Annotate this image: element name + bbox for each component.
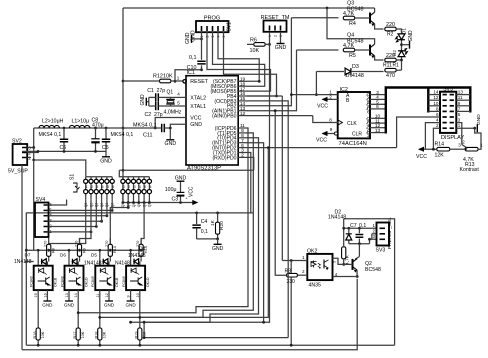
svg-text:GND: GND (408, 30, 414, 42)
svg-text:R20: R20 (219, 221, 225, 230)
svg-text:MKS4 0,1: MKS4 0,1 (39, 132, 62, 138)
svg-text:C1: C1 (147, 88, 154, 94)
wire R6 right (265, 43, 269, 45)
capacitor C3 electrolytic (180, 181, 182, 202)
svg-text:PREAMP_SEL: PREAMP_SEL (387, 217, 393, 249)
svg-text:4N35: 4N35 (309, 283, 322, 289)
svg-text:PC849: PC849 (30, 276, 34, 287)
bus IC2 to SV5 (386, 88, 471, 134)
svg-text:VCC: VCC (416, 154, 427, 160)
connector SV4 (35, 203, 49, 238)
ground R20 GND (217, 239, 219, 244)
svg-text:11: 11 (458, 95, 463, 100)
wire C4 bottom (197, 238, 218, 240)
svg-text:100μ: 100μ (165, 187, 177, 193)
svg-text:1K: 1K (210, 219, 216, 226)
wire outer loop (22, 279, 357, 350)
node C5 top (105, 127, 108, 130)
resistor R3 330 (287, 273, 298, 277)
svg-text:R11: R11 (383, 62, 392, 68)
node RESET_TM R6 (268, 43, 271, 46)
wire SV4 row1 (49, 231, 92, 233)
node C4 top (195, 212, 198, 215)
svg-text:12: 12 (105, 293, 109, 297)
wire filter bottom rail (22, 150, 106, 152)
svg-text:270: 270 (44, 241, 48, 247)
ground IC1 GND (166, 139, 174, 141)
connector RESET_TM (264, 21, 287, 32)
wire VCC stub (155, 118, 186, 129)
svg-text:DISPLAY: DISPLAY (441, 135, 464, 141)
svg-text:5: 5 (107, 185, 109, 189)
svg-text:27p: 27p (157, 88, 166, 94)
wire PB1 net to R5 (297, 49, 339, 51)
capacitor C10 (197, 61, 205, 64)
svg-text:74AC164N: 74AC164N (339, 141, 367, 147)
svg-text:R12: R12 (153, 74, 163, 80)
svg-text:1: 1 (177, 76, 180, 81)
transistor Q4 (369, 45, 371, 56)
svg-text:CLK: CLK (347, 121, 357, 127)
wire C2 left (149, 105, 156, 107)
wire SV5 pin6 down (397, 117, 440, 148)
svg-text:OK1B: OK1B (115, 277, 119, 287)
wire cell1 diode left (26, 261, 33, 263)
svg-text:4: 4 (102, 185, 104, 189)
wire C4 rail (26, 212, 254, 214)
svg-text:8: 8 (329, 118, 332, 123)
svg-text:9: 9 (458, 101, 461, 106)
svg-text:4,0MHz: 4,0MHz (164, 109, 182, 115)
svg-text:L1>10μ: L1>10μ (72, 119, 90, 125)
svg-text:GND: GND (42, 303, 53, 308)
wire SV4 pin6 (49, 200, 67, 206)
svg-text:7: 7 (458, 106, 461, 111)
wire OK2 pin1 (282, 260, 307, 262)
svg-text:15: 15 (34, 293, 38, 297)
wire SV5 pin1 gnd (456, 127, 474, 129)
svg-text:C6: C6 (60, 145, 67, 151)
wire RESET net to pin1 (175, 70, 202, 82)
svg-text:2: 2 (329, 94, 332, 99)
node R20 bottom (216, 238, 219, 241)
svg-text:GND: GND (100, 159, 112, 165)
svg-text:R10: R10 (113, 246, 117, 253)
svg-text:GND: GND (212, 246, 224, 252)
svg-text:QD: QD (366, 107, 371, 113)
svg-text:9: 9 (127, 295, 131, 297)
svg-text:9: 9 (330, 127, 333, 132)
wire rail A (343, 219, 345, 246)
resistor R6 (254, 43, 265, 47)
svg-text:SV3: SV3 (376, 248, 386, 254)
wire S1 col3 (95, 199, 97, 226)
wire SV5 pin3 to wiper (456, 123, 462, 145)
svg-text:R4: R4 (349, 21, 356, 27)
wire collector riser (359, 239, 376, 243)
wire R1 to D2 node (396, 59, 401, 61)
svg-text:VCC: VCC (189, 186, 195, 197)
svg-text:SV1: SV1 (227, 22, 233, 32)
wire R4 to Q3 base (355, 17, 370, 19)
svg-text:S1: S1 (70, 174, 76, 180)
svg-text:4,7K: 4,7K (343, 43, 354, 49)
wire LED column (401, 29, 403, 70)
svg-text:R14: R14 (435, 141, 445, 147)
node sv5 gnd (473, 127, 476, 130)
svg-text:270: 270 (105, 241, 109, 247)
wire SV2 pin1 stub (27, 157, 31, 159)
svg-text:1N4148: 1N4148 (345, 73, 364, 79)
wire crystal top (170, 97, 172, 99)
svg-text:R17: R17 (73, 332, 77, 339)
wire base (344, 263, 353, 265)
wire S2 col2 to cell3 (110, 203, 128, 245)
diode D7 (48, 244, 50, 250)
svg-text:10K: 10K (41, 331, 45, 338)
wire VCC to Q3 collector (374, 8, 376, 12)
wire VCC low rail (123, 202, 192, 204)
svg-text:XTAL1: XTAL1 (190, 104, 206, 110)
svg-text:1N4148: 1N4148 (128, 253, 146, 259)
LED D2 (398, 51, 405, 57)
wire loop PD6 (78, 128, 248, 313)
resistor R4 (343, 16, 354, 20)
switch S2 (119, 170, 149, 177)
svg-text:R8: R8 (52, 248, 56, 253)
capacitor C7 (358, 228, 360, 243)
svg-text:1: 1 (458, 123, 461, 128)
diode D2 relay (348, 228, 350, 243)
wire PB0 to CLK (247, 115, 313, 117)
wire SV4 row4 (49, 215, 107, 217)
node R12 tap (122, 80, 125, 83)
svg-text:270: 270 (74, 241, 78, 247)
ground OK3 GND (108, 299, 110, 301)
svg-text:VCC: VCC (190, 115, 201, 121)
svg-text:12K: 12K (435, 153, 445, 159)
diode D3 (345, 68, 351, 75)
resistor R2 220 (385, 27, 396, 31)
svg-text:GND: GND (104, 303, 115, 308)
pins SV5 (443, 94, 447, 96)
wire D3 to R11 (352, 71, 384, 73)
node filter tap (122, 127, 125, 130)
node PD2 loop join (267, 146, 270, 149)
svg-text:5: 5 (177, 100, 180, 105)
wire filter rail (34, 127, 156, 129)
svg-text:0,1: 0,1 (201, 229, 208, 235)
svg-text:Q1: Q1 (167, 89, 174, 95)
wire XTAL1 (171, 105, 187, 107)
svg-text:R1: R1 (393, 62, 400, 68)
wire pin1 to bottom rail (290, 261, 292, 346)
connector SV2 (13, 144, 28, 165)
wire left inner rail (25, 250, 27, 345)
node R20 top (216, 212, 219, 215)
svg-text:SV2: SV2 (12, 139, 22, 145)
wire Q2 collector (355, 244, 359, 260)
wire PROG gnd (192, 38, 203, 40)
ground LED GND (402, 44, 410, 46)
svg-text:BC548: BC548 (365, 267, 381, 273)
svg-text:10: 10 (433, 101, 439, 106)
connector SV1 PROG (196, 21, 229, 32)
optocoupler OK2 PC849 (65, 266, 84, 290)
optocoupler OK4 PC849 (126, 266, 145, 290)
svg-text:L2>10μH: L2>10μH (42, 119, 64, 125)
wire SV4 row2 (49, 226, 97, 228)
wire PROG pin4 to PB7 (218, 32, 259, 81)
svg-text:OK2: OK2 (307, 248, 317, 254)
wire R3 to OK2 pin2 (298, 274, 308, 276)
svg-text:12: 12 (433, 95, 439, 100)
wire PB7net to D3 (316, 71, 344, 73)
svg-text:R9: R9 (82, 248, 86, 253)
svg-text:C2: C2 (145, 112, 152, 118)
wire RXD long (119, 169, 254, 171)
resistor R18 10K (99, 299, 101, 345)
svg-text:C4: C4 (201, 219, 208, 225)
node D2 R1 (400, 59, 403, 62)
power VCC arrow CLR (334, 132, 337, 135)
resistor R5 (343, 48, 354, 52)
svg-text:C3: C3 (172, 197, 179, 203)
wire OK2 pin4 to emitter (333, 276, 358, 278)
svg-text:220: 220 (386, 22, 395, 28)
svg-text:C11: C11 (143, 133, 153, 139)
inductor L2 (39, 125, 59, 128)
svg-text:XTAL2: XTAL2 (190, 95, 206, 101)
wire S1 col2 elbow (80, 199, 92, 244)
wire loop PD3 (247, 143, 264, 323)
switch S1 (86, 176, 112, 178)
svg-text:6: 6 (150, 185, 152, 189)
svg-text:GND: GND (185, 32, 191, 44)
svg-text:10K: 10K (163, 74, 173, 80)
wire S2 col5 to cell4 (141, 203, 144, 245)
svg-text:12: 12 (240, 111, 246, 117)
wire C11 left seg (155, 127, 162, 129)
node s1 feed (32, 159, 35, 162)
svg-text:OK1D: OK1D (84, 277, 88, 287)
svg-text:2: 2 (273, 35, 277, 37)
LED D1 (398, 34, 405, 40)
wire VCC to R12 (123, 80, 160, 82)
svg-text:14: 14 (74, 293, 78, 297)
svg-text:R5: R5 (349, 53, 356, 59)
ground OK4 GND (130, 299, 132, 301)
svg-text:3: 3 (134, 185, 136, 189)
wire sv3 pin2 (372, 233, 377, 235)
svg-text:GND: GND (190, 122, 202, 128)
wire C10 bottom (201, 65, 203, 69)
crystal Q1 (166, 99, 175, 104)
svg-text:(RXD)PD0: (RXD)PD0 (212, 155, 236, 161)
wire rail A horiz (344, 227, 377, 229)
wire PD2 to SV5 (268, 147, 396, 149)
svg-text:6: 6 (436, 112, 439, 117)
wire SV5 pin4 down (425, 123, 440, 150)
node emitter (356, 275, 359, 278)
wire VCC top rail (123, 7, 375, 9)
svg-text:D2: D2 (392, 50, 397, 56)
connector SV3 (377, 223, 390, 246)
wire GND stub (170, 124, 186, 139)
svg-text:13: 13 (375, 128, 381, 134)
transistor Q3 (369, 13, 371, 24)
ground filter GND (105, 151, 107, 156)
wire S1 col5 (106, 199, 108, 216)
svg-text:(AIN0)PB0: (AIN0)PB0 (212, 114, 237, 120)
inductor L1 (69, 125, 89, 128)
svg-text:2: 2 (91, 185, 93, 189)
svg-text:10K: 10K (102, 331, 106, 338)
capacitor C4 (196, 213, 198, 239)
IC U1 AT90S2313 (186, 76, 238, 165)
svg-text:6: 6 (376, 104, 379, 110)
node IC2 A join (315, 93, 318, 96)
power VCC arrow B (323, 98, 338, 100)
ground RESET_TM GND (280, 32, 282, 44)
wire Q2 emitter (356, 270, 358, 276)
wire PB3 down (247, 101, 288, 214)
node PB3 r19 (143, 336, 146, 339)
wire R2 to D1 (396, 29, 401, 32)
power VCC arrow R14 (419, 148, 436, 150)
svg-text:11: 11 (96, 294, 100, 298)
ground C3 GND (177, 180, 185, 182)
resistor R16 10K (37, 299, 39, 345)
wire PB2 net to R4 (291, 17, 338, 19)
wire SV2 pin3 up (27, 128, 34, 148)
IC U2 74AC164N (338, 92, 370, 138)
wire PD0 to rail (247, 157, 254, 170)
wire bottom rail (26, 344, 394, 346)
resistor R12 (160, 79, 171, 83)
svg-text:4,7K: 4,7K (344, 254, 350, 265)
svg-text:PC849: PC849 (60, 276, 64, 287)
svg-text:OK1B: OK1B (54, 277, 58, 287)
svg-text:13: 13 (65, 293, 69, 297)
wire PB4 down (281, 96, 283, 261)
wire PB2 vertical (247, 18, 291, 106)
svg-text:QH: QH (366, 131, 371, 137)
node C11 gnd join (169, 127, 172, 130)
svg-text:GND: GND (125, 303, 136, 308)
svg-text:R18: R18 (95, 332, 99, 339)
svg-text:VCC: VCC (316, 138, 327, 144)
svg-text:RESET_TM: RESET_TM (261, 15, 290, 21)
node RESET net (200, 68, 203, 71)
capacitor C6 (63, 128, 65, 151)
svg-text:SV4: SV4 (36, 197, 46, 203)
svg-text:470μ: 470μ (92, 123, 104, 129)
wire SV2 pin2 (27, 151, 38, 152)
optocoupler OK1 PC849 (34, 266, 53, 290)
svg-text:C5: C5 (102, 145, 109, 151)
node R14 vcc (432, 148, 435, 151)
svg-text:VCC: VCC (317, 104, 328, 110)
svg-text:MKS4 0,1: MKS4 0,1 (111, 132, 134, 138)
wire opto rail (26, 249, 141, 251)
capacitor C1 (156, 93, 159, 101)
svg-text:PC849: PC849 (122, 276, 126, 287)
svg-text:GND: GND (140, 94, 146, 106)
wire to IC2 A (291, 94, 337, 96)
wire left col down (33, 160, 35, 250)
resistor R17 10K (77, 299, 79, 345)
wire VCC to Q4 collector (327, 8, 375, 44)
capacitor C5 (105, 128, 107, 151)
svg-text:GND: GND (64, 303, 75, 308)
wire loop PD2 branch (140, 148, 268, 318)
node C6 top (63, 127, 66, 130)
wire R12 to RESET (171, 80, 183, 82)
wire Q3 emitter (375, 24, 384, 29)
wire XTAL2 (171, 96, 187, 98)
svg-text:GND: GND (165, 141, 177, 147)
resistor R1 220 (385, 58, 396, 62)
svg-text:3: 3 (458, 118, 461, 123)
wire loop PD4 (131, 138, 259, 322)
wire OK2 pin5 (333, 258, 344, 264)
node RESET pin1 (174, 80, 177, 83)
svg-text:8: 8 (436, 106, 439, 111)
ground OK2 GND (68, 299, 70, 301)
node A feed (290, 93, 293, 96)
wire C1 right (158, 96, 170, 98)
svg-text:IC1: IC1 (187, 70, 195, 76)
svg-text:1N4148: 1N4148 (328, 215, 346, 221)
wire C2 right (158, 105, 170, 107)
svg-text:R19: R19 (135, 332, 139, 339)
svg-text:13: 13 (458, 90, 464, 95)
wire outer left GND (21, 165, 23, 350)
optocoupler OK2 4N35 (307, 254, 332, 280)
wire R11 right (396, 69, 401, 71)
svg-text:3: 3 (97, 185, 99, 189)
svg-text:16: 16 (43, 293, 47, 297)
wire gnd to R13 (475, 128, 481, 149)
svg-text:SV5: SV5 (443, 86, 453, 92)
node rail cross (122, 169, 125, 172)
ground PROG GND (191, 35, 193, 43)
resistor R20 (217, 213, 219, 239)
wire SV5 pin2 down (433, 128, 440, 149)
node PB7 junction (258, 80, 261, 83)
ground crystal GND (148, 97, 150, 106)
node LED mid (400, 43, 403, 46)
svg-text:1: 1 (86, 185, 88, 189)
svg-text:D6: D6 (60, 253, 66, 258)
wire D3 net vertical (315, 72, 317, 95)
power VCC arrow right (192, 202, 196, 204)
svg-text:5: 5 (144, 185, 146, 189)
svg-text:R2: R2 (387, 31, 394, 37)
svg-text:D3: D3 (352, 64, 359, 70)
node loop6 join (143, 321, 146, 324)
node C11 left (154, 127, 157, 130)
wire rail B (349, 243, 360, 245)
pins OK3 bottom (99, 290, 101, 299)
svg-text:2: 2 (241, 153, 244, 159)
wire SV4 row3 (49, 220, 102, 222)
wire PROG pin3 to PB6 (213, 32, 265, 86)
svg-text:1N4148: 1N4148 (84, 261, 102, 267)
svg-text:2: 2 (436, 123, 439, 128)
wire C11 right seg (164, 127, 170, 129)
